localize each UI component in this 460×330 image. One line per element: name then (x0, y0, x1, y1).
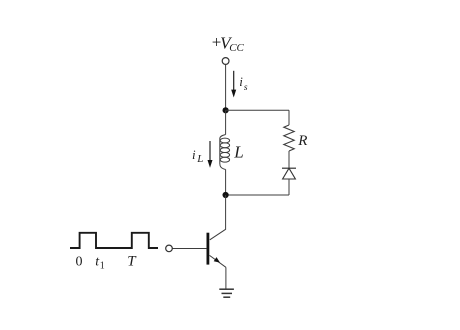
diode D1 (flyback, cathode up) (282, 168, 296, 179)
svg-text:R: R (297, 133, 307, 149)
svg-text:T: T (127, 254, 137, 270)
wire diode to bottom rail (288, 179, 290, 195)
wire node B to collector (210, 195, 226, 240)
svg-text:0: 0 (76, 255, 83, 270)
node B junction dot (223, 192, 229, 198)
wire right branch top (288, 110, 290, 125)
current arrow i_s (231, 71, 236, 98)
transistor Q1 emitter (210, 255, 226, 267)
input square waveform (70, 233, 158, 248)
svg-text:L: L (233, 143, 243, 162)
svg-text:1: 1 (100, 261, 105, 272)
wire node A to inductor (225, 110, 227, 134)
svg-text:i: i (239, 74, 243, 89)
wire VCC terminal to node A (225, 64, 227, 110)
svg-text:CC: CC (229, 42, 244, 54)
resistor R (284, 125, 294, 151)
transistor Q1 base bar (206, 233, 209, 265)
ground (219, 289, 234, 297)
wire base (172, 248, 206, 250)
svg-text:i: i (192, 147, 196, 162)
svg-text:L: L (196, 153, 203, 165)
inductor L coil (220, 135, 230, 170)
wire bottom rail to node B (226, 194, 289, 196)
wire inductor to node B (225, 170, 227, 196)
node A junction dot (223, 107, 229, 113)
wire emitter to ground (225, 267, 227, 289)
wire top rail node A to right branch (226, 109, 289, 111)
svg-text:s: s (244, 83, 248, 93)
power terminal VCC (222, 58, 229, 65)
wire resistor to diode (288, 151, 290, 168)
current arrow i_L (208, 141, 213, 168)
input terminal (166, 245, 173, 252)
